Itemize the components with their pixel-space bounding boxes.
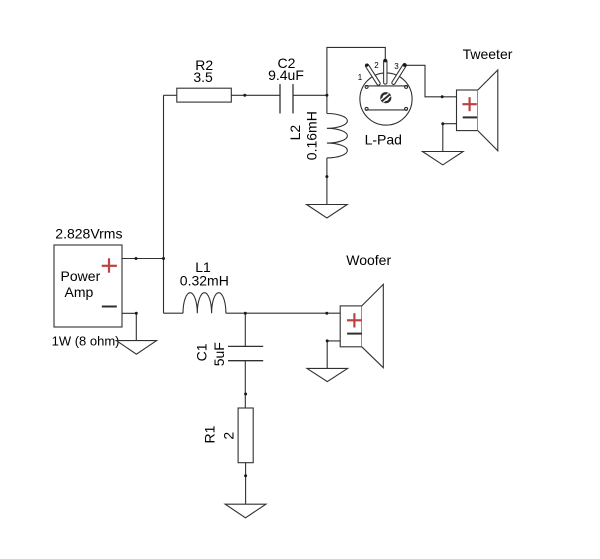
junction node C at L1/C1 (244, 312, 247, 315)
junction woofer plus (325, 312, 328, 315)
svg-text:0.16mH: 0.16mH (304, 111, 320, 160)
tweeter SP1 body (457, 70, 498, 151)
capacitor C1 (228, 346, 263, 360)
svg-text:L-Pad: L-Pad (365, 131, 402, 147)
ground (woofer) (307, 368, 348, 381)
woofer SP2 body (340, 284, 383, 367)
wire C2 right plate to node B (293, 94, 327, 96)
tweeter plus terminal (462, 97, 476, 111)
inductor L1 labels (180, 259, 229, 289)
wire woofer minus to ground (327, 341, 340, 369)
junction L2 to ground (325, 175, 328, 178)
inductor L2 (327, 114, 347, 158)
ground (tweeter) (423, 152, 464, 165)
svg-text:C1: C1 (193, 343, 209, 361)
ground (power amp) (116, 341, 156, 355)
woofer plus terminal (347, 313, 362, 327)
wire amp plus output to node A (122, 258, 164, 260)
svg-text:5uF: 5uF (211, 342, 227, 366)
junction C1 to R1 (244, 393, 247, 396)
resistor R1 labels (rotated) (201, 425, 236, 443)
junction node B at C2/L2 (325, 94, 328, 97)
ground (R1) (225, 504, 266, 518)
junction R1 to ground (244, 474, 247, 477)
resistor R1 (238, 408, 253, 463)
power amp name labels (61, 268, 101, 300)
wire C1 bottom plate to R1 top (244, 361, 246, 408)
junction L-Pad pin3 top (403, 63, 407, 67)
capacitor C2 labels (268, 55, 304, 83)
L-Pad lug 1 (365, 64, 378, 84)
svg-text:3.5: 3.5 (193, 69, 213, 85)
wire top net: R2 left lead from node A vertical (164, 94, 177, 96)
wire tweeter minus to ground (443, 124, 457, 152)
power amp minus terminal (102, 306, 117, 308)
svg-text:2.828Vrms: 2.828Vrms (55, 226, 122, 242)
wire node A to L1 left lead (164, 312, 184, 314)
wire L2 bottom to ground (326, 158, 328, 205)
junction node A tee (162, 257, 165, 260)
wire node B down to L2 (326, 95, 328, 113)
svg-text:1W (8 ohm): 1W (8 ohm) (52, 334, 120, 349)
capacitor C1 labels (rotated) (193, 342, 227, 366)
L-Pad lug 3 (394, 65, 405, 83)
svg-text:L2: L2 (287, 125, 303, 141)
svg-text:1: 1 (358, 73, 363, 82)
power amp V1 box (54, 245, 122, 327)
junction tweeter plus (441, 95, 444, 98)
junction L-Pad pin2 top (383, 59, 387, 63)
capacitor C2 (280, 84, 293, 113)
svg-text:Amp: Amp (65, 284, 94, 300)
svg-text:R1: R1 (201, 425, 217, 443)
junction amp plus wire (135, 257, 138, 260)
junction woofer minus (326, 339, 329, 342)
wire left vertical node A (163, 95, 165, 313)
woofer minus terminal (347, 333, 362, 335)
resistor R2 labels (193, 57, 213, 85)
wire R2 right lead to C2 left plate (231, 94, 280, 96)
junction tweeter minus (441, 122, 444, 125)
L-Pad U1 body (360, 73, 412, 125)
svg-text:3: 3 (394, 62, 399, 71)
svg-text:0.32mH: 0.32mH (180, 273, 229, 289)
wire amp minus to ground (122, 313, 136, 340)
svg-text:Power: Power (61, 268, 101, 284)
wire node B up and over to L-Pad pin 2 (327, 47, 385, 95)
svg-text:Tweeter: Tweeter (463, 46, 513, 62)
ground (L2) (307, 205, 348, 219)
wire L-Pad pin 3 to tweeter plus (405, 65, 457, 97)
tweeter minus terminal (463, 116, 477, 118)
wire node C down to C1 top plate (244, 313, 246, 346)
svg-text:2: 2 (374, 61, 379, 70)
svg-text:2: 2 (221, 432, 237, 440)
inductor L1 (183, 293, 226, 314)
power amp plus terminal (102, 258, 117, 272)
wire R1 bottom to ground (245, 463, 247, 505)
L-Pad pin number labels 1 2 3 (358, 61, 400, 82)
resistor R2 (177, 88, 232, 102)
L-Pad lug 2 (383, 61, 387, 82)
L-Pad screw (381, 93, 390, 102)
junction amp minus wire (135, 312, 138, 315)
svg-text:9.4uF: 9.4uF (268, 67, 304, 83)
inductor L2 labels (rotated) (287, 111, 320, 160)
wire L1 right lead to woofer plus (226, 312, 340, 314)
junction between R2 and C2 (243, 94, 246, 97)
svg-text:Woofer: Woofer (346, 252, 391, 268)
